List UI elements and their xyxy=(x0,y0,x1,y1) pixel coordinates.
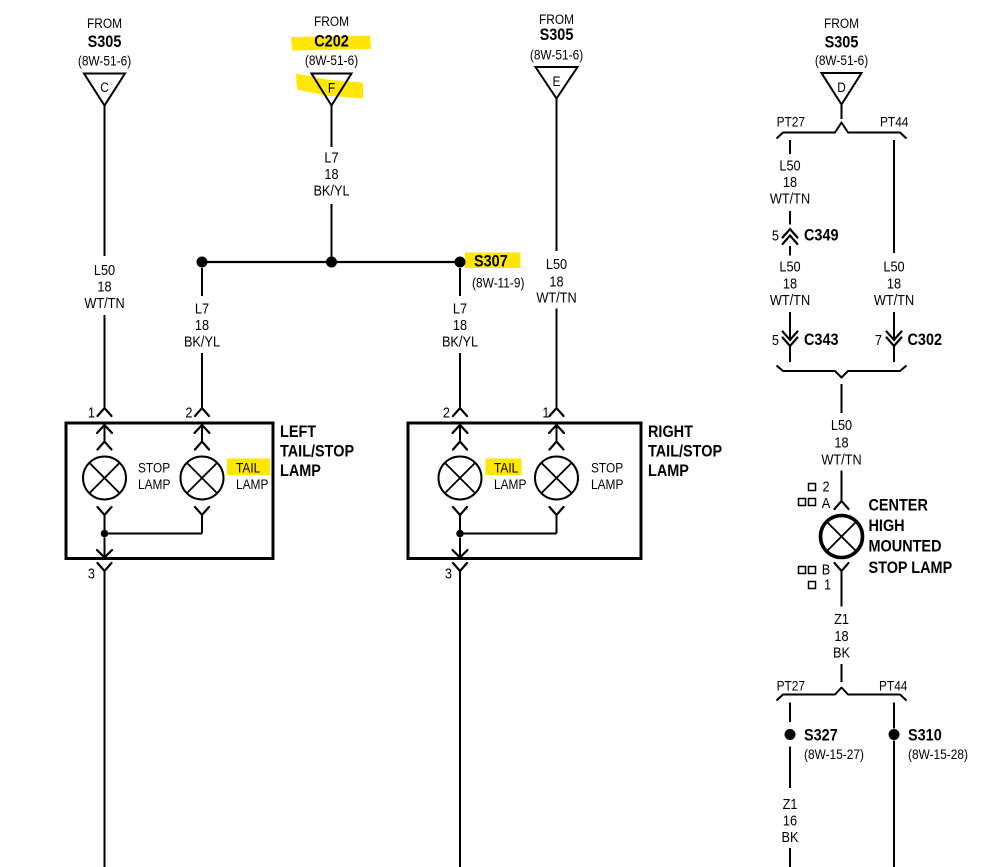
connector triangle C xyxy=(84,74,125,106)
svg-text:BK/YL: BK/YL xyxy=(313,181,349,198)
highlight over connector F triangle xyxy=(296,74,363,99)
svg-text:L50: L50 xyxy=(94,261,115,278)
svg-text:LAMP: LAMP xyxy=(138,476,170,492)
svg-text:L7: L7 xyxy=(453,299,467,316)
svg-text:WT/TN: WT/TN xyxy=(536,288,576,305)
wire split brace (top) xyxy=(777,123,907,139)
svg-text:TAIL: TAIL xyxy=(494,460,518,476)
svg-text:18: 18 xyxy=(453,316,467,333)
right stop lamp xyxy=(535,457,578,500)
svg-text:C343: C343 xyxy=(804,331,839,349)
wire F triangle to L7 label xyxy=(331,106,333,148)
svg-text:BK: BK xyxy=(833,643,851,660)
connector triangle F xyxy=(312,74,352,106)
pin 3 exit arrow (right box) xyxy=(459,538,461,557)
wire BK/YL to pin 2 (right box) xyxy=(459,353,461,407)
svg-text:18: 18 xyxy=(549,272,563,289)
svg-text:(8W-51-6): (8W-51-6) xyxy=(305,52,358,68)
wire merge to L50 label xyxy=(841,384,843,413)
svg-text:2: 2 xyxy=(443,403,450,420)
highlight over splice S307 label xyxy=(465,253,521,269)
wire right box pin 3 to bottom xyxy=(459,571,461,867)
wire C343 to merge xyxy=(789,346,791,362)
pin 1 entry arrow (right box) xyxy=(556,425,558,441)
svg-text:STOP: STOP xyxy=(138,460,170,476)
wire S327 to Z1 label xyxy=(789,747,791,789)
wire tail lamp to junction (left box) xyxy=(201,515,203,534)
svg-text:FROM: FROM xyxy=(314,13,349,29)
svg-text:Z1: Z1 xyxy=(783,795,798,812)
wire C349 to L50 label xyxy=(789,246,791,256)
wire C302 to merge xyxy=(893,346,895,362)
connector triangle D xyxy=(822,73,862,105)
wire to splice S310 xyxy=(893,703,895,729)
wire PT44 branch down xyxy=(893,140,895,253)
svg-text:3: 3 xyxy=(445,564,452,581)
wire to splice S327 xyxy=(789,703,791,723)
svg-text:STOP LAMP: STOP LAMP xyxy=(869,559,953,577)
right stop lamp lower chevron xyxy=(550,507,564,515)
wire tail lamp to junction (right box) xyxy=(459,515,461,534)
wire WT/TN to pin 1 (right box) xyxy=(556,309,558,408)
in-line connector C349 (pin 5) xyxy=(783,229,798,238)
svg-text:18: 18 xyxy=(783,173,797,190)
highlight over right TAIL label xyxy=(486,459,522,476)
junction dot inside left box xyxy=(101,530,109,538)
pin 1 entry arrow (left box) xyxy=(104,425,106,441)
svg-text:CENTER: CENTER xyxy=(869,496,929,514)
wire L7 down to bus junction xyxy=(331,204,333,257)
wire WT/TN to C343 xyxy=(789,312,791,340)
svg-text:S305: S305 xyxy=(825,33,859,51)
wire split brace (bottom) xyxy=(777,688,907,701)
svg-text:1: 1 xyxy=(542,403,549,420)
svg-text:F: F xyxy=(328,80,335,96)
right tail lamp lower chevron xyxy=(453,507,467,515)
junction dot left (to left box pin 2) xyxy=(197,257,208,268)
svg-text:WT/TN: WT/TN xyxy=(770,189,810,206)
svg-text:(8W-51-6): (8W-51-6) xyxy=(530,47,583,63)
left tail lamp lower chevron xyxy=(195,507,209,515)
svg-text:18: 18 xyxy=(834,627,848,644)
pin square 2 xyxy=(809,484,816,491)
svg-text:(8W-15-28): (8W-15-28) xyxy=(908,746,968,762)
highlight over C202 label xyxy=(291,36,371,51)
svg-text:L7: L7 xyxy=(324,148,338,165)
wire L50 to left lamp pin 1 xyxy=(104,315,106,407)
svg-text:MOUNTED: MOUNTED xyxy=(869,537,942,555)
svg-text:C302: C302 xyxy=(908,331,943,349)
svg-text:A: A xyxy=(822,494,831,511)
svg-text:S310: S310 xyxy=(908,726,942,744)
svg-text:WT/TN: WT/TN xyxy=(84,294,124,311)
pin 3 exit arrow (left box) xyxy=(104,538,106,557)
svg-text:C202: C202 xyxy=(314,32,349,50)
svg-text:(8W-15-27): (8W-15-27) xyxy=(804,746,864,762)
svg-text:3: 3 xyxy=(88,564,95,581)
pin square 1 xyxy=(809,582,816,589)
svg-text:FROM: FROM xyxy=(824,15,859,31)
svg-text:LAMP: LAMP xyxy=(236,476,268,492)
CHMSL pin A connector chevron xyxy=(835,501,849,509)
wire E triangle to L50 label xyxy=(556,99,558,252)
right tail/stop lamp box xyxy=(408,423,641,559)
svg-text:18: 18 xyxy=(97,277,111,294)
svg-text:S305: S305 xyxy=(540,26,574,44)
svg-text:RIGHT: RIGHT xyxy=(648,423,693,441)
svg-text:FROM: FROM xyxy=(539,11,574,27)
svg-text:WT/TN: WT/TN xyxy=(821,450,861,467)
left tail lamp xyxy=(181,457,224,500)
wire merge brace xyxy=(777,366,907,378)
svg-text:LAMP: LAMP xyxy=(494,476,526,492)
svg-text:LAMP: LAMP xyxy=(280,462,321,480)
wire bus to L7 label (left box pin 2) xyxy=(201,268,203,296)
svg-text:LAMP: LAMP xyxy=(648,462,689,480)
splice S327 dot xyxy=(785,729,796,740)
bus wire between junctions xyxy=(202,261,460,263)
in-line connector C343 (pin 5) xyxy=(783,332,798,341)
svg-text:L50: L50 xyxy=(883,257,904,274)
pin 2 entry arrow (right box) xyxy=(459,425,461,441)
wire Z1 16 BK to bottom xyxy=(789,848,791,867)
svg-text:1: 1 xyxy=(824,575,831,592)
svg-text:PT44: PT44 xyxy=(880,114,908,130)
svg-text:2: 2 xyxy=(185,403,192,420)
svg-text:(8W-51-6): (8W-51-6) xyxy=(78,53,131,69)
connector triangle E xyxy=(536,67,578,99)
svg-text:TAIL/STOP: TAIL/STOP xyxy=(648,442,722,460)
pin squares A xyxy=(799,499,806,506)
svg-text:(8W-11-9): (8W-11-9) xyxy=(472,275,524,291)
wire CHMSL pin B to Z1 label xyxy=(841,571,843,607)
svg-text:18: 18 xyxy=(834,433,848,450)
svg-text:BK/YL: BK/YL xyxy=(184,332,220,349)
wire stop lamp to junction (right box) xyxy=(556,515,558,534)
svg-text:STOP: STOP xyxy=(591,460,623,476)
wire S307 to L7 label xyxy=(459,268,461,296)
svg-text:18: 18 xyxy=(324,165,338,182)
center high mounted stop lamp xyxy=(821,516,863,558)
svg-text:HIGH: HIGH xyxy=(869,517,905,535)
svg-text:TAIL: TAIL xyxy=(236,460,260,476)
svg-text:S307: S307 xyxy=(474,252,508,270)
pin 2 connector chevron (right box) xyxy=(453,408,467,416)
svg-text:5: 5 xyxy=(772,331,779,348)
wire C triangle to L50 label xyxy=(104,106,106,257)
left tail/stop lamp box xyxy=(66,423,273,559)
svg-text:18: 18 xyxy=(887,274,901,291)
wire BK/YL to pin 2 xyxy=(201,353,203,407)
pin 2 entry arrow (left box) xyxy=(201,425,203,441)
pin 1 connector chevron (right box) xyxy=(550,408,564,416)
wire WT/TN to C302 xyxy=(893,312,895,340)
svg-text:C: C xyxy=(100,79,109,95)
svg-text:PT27: PT27 xyxy=(777,678,805,694)
CHMSL pin B connector chevron xyxy=(835,563,849,571)
svg-text:16: 16 xyxy=(783,811,797,828)
splice S310 dot xyxy=(889,729,900,740)
svg-text:WT/TN: WT/TN xyxy=(770,291,810,308)
svg-text:L7: L7 xyxy=(195,299,209,316)
wire S310 to bottom xyxy=(893,741,895,867)
svg-text:PT44: PT44 xyxy=(879,678,907,694)
highlight over left TAIL label xyxy=(227,459,270,476)
svg-text:L50: L50 xyxy=(546,255,567,272)
svg-text:LAMP: LAMP xyxy=(591,476,623,492)
svg-text:7: 7 xyxy=(875,331,882,348)
svg-text:BK/YL: BK/YL xyxy=(442,332,478,349)
svg-text:18: 18 xyxy=(195,316,209,333)
left stop lamp lower chevron xyxy=(98,507,112,515)
left stop lamp xyxy=(83,457,126,500)
svg-text:L50: L50 xyxy=(831,416,852,433)
svg-text:C349: C349 xyxy=(804,226,839,244)
pin 2 connector chevron (left box) xyxy=(195,408,209,416)
svg-text:1: 1 xyxy=(88,403,95,420)
junction dot middle (from F) xyxy=(326,257,337,268)
junction dot inside right box xyxy=(456,530,464,538)
wire Z1 to lower split xyxy=(841,664,843,682)
wire PT27 branch to L50 xyxy=(789,140,791,154)
pin squares B xyxy=(799,567,806,574)
right tail lamp xyxy=(439,457,482,500)
in-line connector C302 (pin 7) xyxy=(887,332,902,341)
svg-text:BK: BK xyxy=(781,828,799,845)
pin 3 connector chevron (left box) xyxy=(98,563,112,571)
pin 1 connector chevron (left box) xyxy=(98,408,112,416)
pin 3 connector chevron (right box) xyxy=(453,563,467,571)
svg-text:2: 2 xyxy=(822,477,829,494)
svg-text:LEFT: LEFT xyxy=(280,423,316,441)
svg-text:E: E xyxy=(553,73,561,89)
svg-text:PT27: PT27 xyxy=(777,114,805,130)
wire WT/TN to CHMSL pin A xyxy=(841,471,843,502)
wire stop lamp to junction (left box) xyxy=(104,515,106,534)
svg-text:L50: L50 xyxy=(779,156,800,173)
svg-text:TAIL/STOP: TAIL/STOP xyxy=(280,442,354,460)
svg-text:S327: S327 xyxy=(804,726,838,744)
svg-text:Z1: Z1 xyxy=(834,610,849,627)
svg-text:(8W-51-6): (8W-51-6) xyxy=(815,52,868,68)
svg-text:D: D xyxy=(837,79,846,95)
svg-text:FROM: FROM xyxy=(87,15,122,31)
svg-text:5: 5 xyxy=(772,226,779,243)
svg-text:S305: S305 xyxy=(88,33,122,51)
svg-text:WT/TN: WT/TN xyxy=(874,291,914,308)
svg-text:L50: L50 xyxy=(779,257,800,274)
wire D triangle to split xyxy=(841,105,843,120)
splice S307 junction dot xyxy=(455,257,466,268)
wire left box pin 3 to bottom xyxy=(104,571,106,867)
wire WT/TN to C349 xyxy=(789,211,791,225)
svg-text:18: 18 xyxy=(783,274,797,291)
